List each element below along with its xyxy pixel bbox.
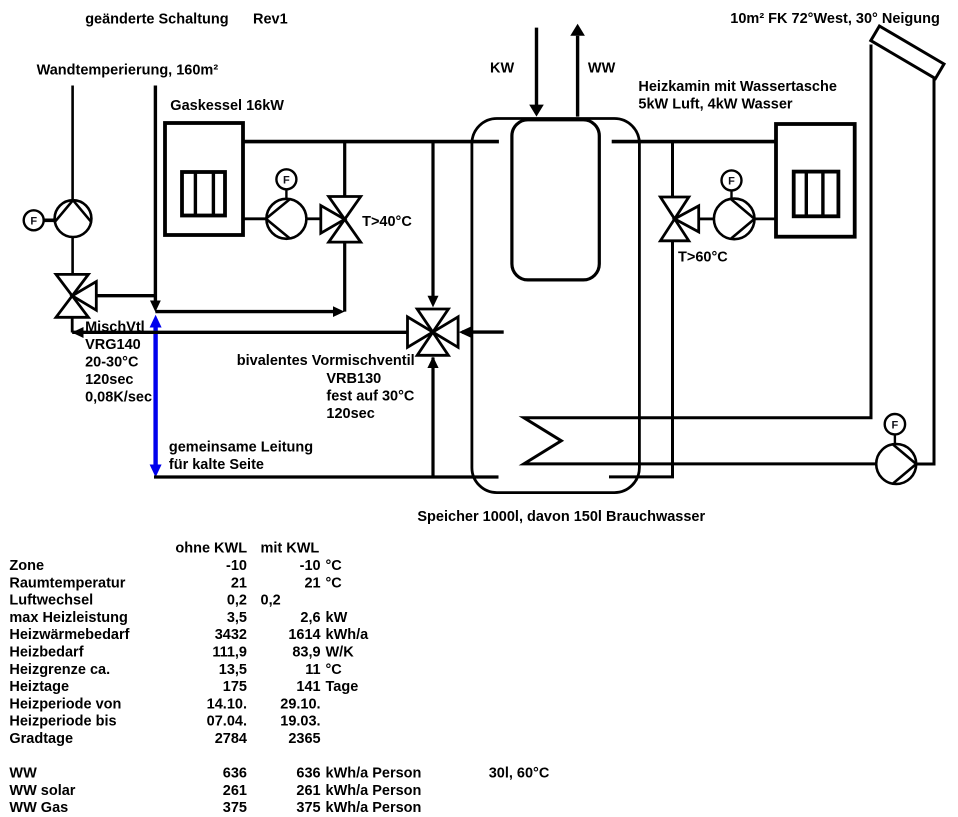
svg-text:°C: °C (326, 662, 343, 678)
svg-text:3432: 3432 (215, 627, 247, 643)
svg-text:0,08K/sec: 0,08K/sec (85, 390, 152, 406)
pump P2 (266, 199, 307, 239)
wire F4 connector (894, 434, 896, 444)
svg-text:Heizperiode bis: Heizperiode bis (9, 714, 116, 730)
blue arrow gemeinsame Leitung (150, 315, 162, 477)
svg-text:kW: kW (326, 610, 348, 626)
svg-text:fest auf 30°C: fest auf 30°C (326, 388, 415, 404)
svg-text:2784: 2784 (215, 731, 247, 747)
svg-text:WW: WW (9, 766, 37, 782)
sensor F2 (276, 169, 296, 189)
svg-text:375: 375 (296, 800, 320, 816)
wire boiler supply top (243, 140, 499, 144)
svg-text:max Heizleistung: max Heizleistung (9, 610, 127, 626)
arrowhead down into VRB130 (428, 296, 439, 308)
svg-text:13,5: 13,5 (219, 662, 247, 678)
svg-text:0,2: 0,2 (227, 593, 247, 609)
svg-text:-10: -10 (300, 558, 321, 574)
svg-text:0,2: 0,2 (261, 593, 281, 609)
sensor F4 (885, 414, 905, 434)
wire pump P2 to T40 valve (306, 217, 321, 220)
svg-text:W/K: W/K (326, 645, 355, 661)
svg-text:F: F (30, 216, 37, 228)
label VRB130 block (237, 353, 415, 422)
svg-text:111,9: 111,9 (212, 645, 247, 661)
svg-text:kWh/a Person: kWh/a Person (326, 783, 422, 799)
wire branch to T60 valve (671, 142, 674, 197)
wire Wandtemperierung riser (154, 86, 157, 302)
svg-text:-10: -10 (226, 558, 247, 574)
wire tank to Heizkamin (612, 140, 776, 144)
svg-text:2,6: 2,6 (300, 610, 320, 626)
wire pump P3 to Heizkamin (755, 217, 777, 220)
sensor F1 (24, 210, 44, 230)
svg-text:120sec: 120sec (326, 406, 374, 422)
arrowhead link right (333, 306, 345, 317)
valve T40 (321, 197, 361, 243)
valve T60 (660, 197, 698, 241)
wire link to T40 valve drop (155, 310, 334, 313)
svg-text:83,9: 83,9 (292, 645, 320, 661)
wire F3 connector (730, 190, 732, 199)
arrowhead up into VRB130 (427, 356, 438, 368)
svg-text:1614: 1614 (288, 627, 320, 643)
storage tank (472, 119, 640, 493)
DHW inner tank (512, 120, 599, 280)
svg-text:VRG140: VRG140 (85, 337, 141, 353)
pump P1 (55, 200, 92, 237)
svg-text:20-30°C: 20-30°C (85, 355, 139, 371)
svg-text:Heizgrenze ca.: Heizgrenze ca. (9, 662, 110, 678)
svg-text:07.04.: 07.04. (207, 714, 247, 730)
svg-text:Heizperiode von: Heizperiode von (9, 696, 121, 712)
wire riser to pump P4 (916, 463, 936, 466)
svg-text:Raumtemperatur: Raumtemperatur (9, 575, 125, 591)
svg-text:T>60°C: T>60°C (678, 250, 728, 266)
wire boiler to pump P2 (243, 217, 267, 220)
svg-text:Heiztage: Heiztage (9, 679, 69, 695)
Heizkamin box (776, 124, 855, 237)
svg-text:°C: °C (326, 558, 343, 574)
svg-text:F: F (892, 420, 899, 432)
svg-text:3,5: 3,5 (227, 610, 247, 626)
wire F1 to pump P1 (44, 219, 55, 223)
wire T40 valve drop (343, 242, 346, 312)
burner symbol gas boiler (182, 172, 225, 216)
arrowhead left at MischVtl (72, 327, 84, 338)
valve MischVtl 3-way (56, 274, 96, 317)
sensor F3 (722, 170, 742, 190)
svg-text:für kalte Seite: für kalte Seite (169, 457, 264, 473)
svg-text:kWh/a: kWh/a (326, 627, 370, 643)
svg-text:bivalentes Vormischventil: bivalentes Vormischventil (237, 353, 415, 369)
svg-text:F: F (283, 175, 290, 187)
label MischVtl block (85, 320, 152, 406)
wire branch to T40 valve (343, 142, 346, 197)
WW arrow (576, 36, 579, 117)
KW arrow (535, 28, 538, 105)
svg-text:120sec: 120sec (85, 372, 133, 388)
svg-text:21: 21 (231, 575, 247, 591)
4-way valve VRB130 (408, 309, 459, 355)
solar collector (871, 26, 944, 79)
svg-text:Gaskessel 16kW: Gaskessel 16kW (170, 98, 284, 114)
svg-text:19.03.: 19.03. (280, 714, 320, 730)
svg-text:175: 175 (223, 679, 247, 695)
svg-text:636: 636 (223, 766, 247, 782)
wire MischVtl to riser (96, 294, 155, 297)
wire VRB130 output to MischVtl (72, 331, 408, 334)
svg-text:F: F (728, 176, 735, 188)
svg-text:Tage: Tage (326, 679, 359, 695)
svg-text:21: 21 (304, 575, 320, 591)
svg-text:kWh/a Person: kWh/a Person (326, 766, 422, 782)
svg-text:10m² FK 72°West, 30° Neigung: 10m² FK 72°West, 30° Neigung (730, 11, 940, 27)
wire wall-heating supply vertical (71, 86, 74, 202)
svg-text:Luftwechsel: Luftwechsel (9, 593, 93, 609)
gas boiler box (165, 123, 243, 235)
svg-text:261: 261 (296, 783, 320, 799)
arrowhead riser down (150, 301, 161, 313)
svg-text:Gradtage: Gradtage (9, 731, 73, 747)
wire tank to VRB130 (462, 330, 504, 333)
wire stub up to MischVtl (71, 318, 74, 333)
svg-text:2365: 2365 (288, 731, 320, 747)
svg-text:VRB130: VRB130 (326, 371, 381, 387)
pump P3 (714, 199, 755, 240)
wire pump P1 to valve MischVtl (71, 237, 74, 275)
svg-text:kWh/a Person: kWh/a Person (326, 800, 422, 816)
svg-text:geänderte Schaltung: geänderte Schaltung (85, 12, 228, 28)
svg-text:WW: WW (588, 61, 616, 77)
wire riser to VRB130 (431, 358, 434, 478)
svg-text:Wandtemperierung, 160m²: Wandtemperierung, 160m² (37, 63, 219, 79)
svg-text:WW solar: WW solar (9, 783, 75, 799)
pump P4 (876, 444, 916, 484)
svg-text:636: 636 (296, 766, 320, 782)
svg-text:Speicher 1000l, davon 150l Bra: Speicher 1000l, davon 150l Brauchwasser (417, 509, 705, 525)
svg-text:11: 11 (305, 662, 320, 678)
wire F2 connector (285, 189, 287, 199)
svg-text:Rev1: Rev1 (253, 12, 288, 28)
svg-text:mit KWL: mit KWL (261, 541, 320, 557)
svg-text:Heizwärmebedarf: Heizwärmebedarf (9, 627, 129, 643)
wire cold common line (154, 475, 499, 478)
table (9, 541, 549, 817)
svg-text:Zone: Zone (9, 558, 44, 574)
svg-text:T>40°C: T>40°C (362, 214, 412, 230)
svg-text:KW: KW (490, 61, 514, 77)
svg-text:°C: °C (326, 575, 343, 591)
svg-text:29.10.: 29.10. (280, 696, 320, 712)
svg-text:Heizkamin mit Wassertasche: Heizkamin mit Wassertasche (638, 79, 837, 95)
svg-text:141: 141 (296, 679, 320, 695)
svg-text:14.10.: 14.10. (207, 696, 247, 712)
svg-text:30l, 60°C: 30l, 60°C (489, 766, 550, 782)
wire T60 return with hop over tank wall (609, 241, 673, 477)
svg-text:gemeinsame Leitung: gemeinsame Leitung (169, 440, 313, 456)
burner symbol Heizkamin (794, 172, 839, 217)
wire T60 valve to pump P3 (699, 217, 715, 220)
svg-text:ohne KWL: ohne KWL (175, 541, 247, 557)
svg-text:WW Gas: WW Gas (9, 800, 68, 816)
svg-text:5kW Luft, 4kW Wasser: 5kW Luft, 4kW Wasser (638, 97, 793, 113)
svg-text:261: 261 (223, 783, 247, 799)
svg-text:375: 375 (223, 800, 247, 816)
arrowhead left into VRB130 (459, 327, 471, 338)
wire branch to VRB130 top (431, 142, 434, 297)
wire coil and solar flow (524, 45, 876, 464)
svg-text:Heizbedarf: Heizbedarf (9, 645, 83, 661)
wire solar riser right (933, 78, 936, 465)
